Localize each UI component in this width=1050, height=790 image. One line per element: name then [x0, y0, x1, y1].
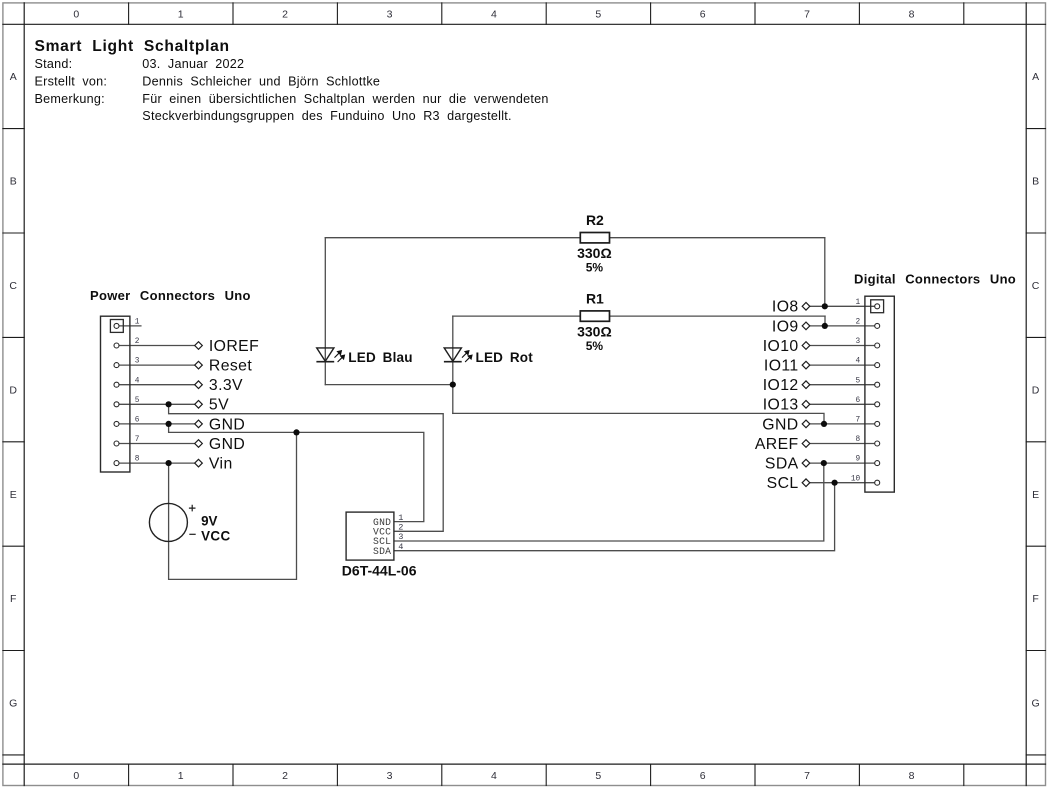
wire R2 top horizontal (net LED Blau anode to IO8): [325, 237, 825, 239]
svg-text:330Ω: 330Ω: [577, 324, 612, 340]
svg-text:4: 4: [491, 8, 497, 20]
svg-text:Reset: Reset: [209, 358, 252, 375]
svg-text:8: 8: [135, 456, 140, 464]
svg-text:5: 5: [595, 8, 601, 20]
svg-text:3: 3: [387, 770, 393, 782]
wire D6T SCL to SDA pin line: [394, 463, 824, 541]
node Vin (power pin 8): [195, 456, 233, 473]
svg-text:0: 0: [73, 8, 79, 20]
svg-text:10: 10: [851, 475, 861, 483]
svg-text:LED Blau: LED Blau: [348, 350, 412, 365]
wire LED Blau vertical from R2: [324, 238, 326, 385]
wire 5V to D6T VCC: [169, 404, 444, 531]
connector J2 Digital Connectors Uno: [854, 271, 1016, 492]
svg-text:IO10: IO10: [763, 338, 799, 355]
svg-text:5: 5: [856, 377, 861, 385]
svg-text:8: 8: [909, 8, 915, 20]
svg-text:8: 8: [856, 436, 861, 444]
svg-text:R2: R2: [586, 212, 604, 228]
pin numbers U1 1-4: [398, 513, 403, 552]
node IO8 (digital pin 1): [772, 299, 810, 316]
svg-text:2: 2: [398, 523, 403, 533]
svg-text:4: 4: [856, 358, 861, 366]
svg-text:Für einen übersichtlichen Scha: Für einen übersichtlichen Schaltplan wer…: [142, 92, 548, 106]
svg-text:F: F: [10, 593, 17, 605]
svg-text:2: 2: [856, 319, 861, 327]
node IO11 (digital pin 4): [764, 358, 810, 375]
node 5V (power pin 5): [195, 397, 229, 414]
svg-text:1: 1: [178, 770, 184, 782]
svg-text:5V: 5V: [209, 397, 229, 414]
svg-text:330Ω: 330Ω: [577, 245, 612, 261]
svg-text:Steckverbindungsgruppen des Fu: Steckverbindungsgruppen des Funduino Uno…: [142, 109, 511, 123]
svg-text:4: 4: [398, 542, 403, 552]
svg-text:SCL: SCL: [767, 475, 799, 492]
svg-text:7: 7: [804, 8, 810, 20]
wire R2 right side down to IO8 pin line: [824, 238, 826, 307]
junction Vin tap: [166, 460, 172, 466]
wire GND to D6T GND: [169, 424, 424, 522]
connector J1 Power Connectors Uno: [90, 288, 251, 472]
svg-text:3: 3: [135, 358, 140, 366]
svg-text:D: D: [1032, 384, 1040, 396]
node GND (digital pin 7): [762, 416, 810, 433]
svg-text:IO13: IO13: [763, 397, 799, 414]
pin numbers J2 1-10: [851, 299, 861, 483]
svg-text:Vin: Vin: [209, 456, 233, 473]
svg-text:IOREF: IOREF: [209, 338, 259, 355]
svg-text:Bemerkung:: Bemerkung:: [35, 92, 105, 106]
junction SCL: [832, 480, 838, 486]
svg-text:E: E: [10, 489, 17, 501]
svg-text:1: 1: [178, 8, 184, 20]
svg-text:B: B: [10, 176, 17, 188]
svg-text:Dennis Schleicher und Björn Sc: Dennis Schleicher und Björn Schlottke: [142, 75, 380, 89]
junction 9V return on GND net: [293, 429, 299, 435]
svg-text:IO9: IO9: [772, 318, 799, 335]
svg-text:E: E: [1032, 489, 1039, 501]
svg-text:C: C: [9, 280, 17, 292]
svg-text:7: 7: [804, 770, 810, 782]
svg-text:B: B: [1032, 176, 1039, 188]
svg-text:9: 9: [856, 456, 861, 464]
svg-text:A: A: [10, 71, 17, 83]
svg-text:8: 8: [909, 770, 915, 782]
junction 5V tap: [166, 401, 172, 407]
wire power connector pin stubs: [117, 326, 195, 463]
svg-text:Smart Light Schaltplan: Smart Light Schaltplan: [35, 38, 230, 55]
svg-text:C: C: [1032, 280, 1040, 292]
svg-text:R1: R1: [586, 290, 604, 306]
svg-text:SDA: SDA: [373, 546, 391, 557]
svg-text:7: 7: [856, 417, 861, 425]
LED D2: [444, 348, 533, 365]
svg-text:2: 2: [282, 770, 288, 782]
svg-text:2: 2: [282, 8, 288, 20]
svg-text:D: D: [9, 384, 17, 396]
svg-text:03. Januar 2022: 03. Januar 2022: [142, 57, 244, 71]
node IO9 (digital pin 2): [772, 318, 810, 335]
svg-text:GND: GND: [762, 416, 798, 433]
pin numbers J1 1-8: [135, 319, 140, 464]
junction LED cathodes: [450, 382, 456, 388]
junction SDA: [821, 460, 827, 466]
svg-text:Digital Connectors Uno: Digital Connectors Uno: [854, 271, 1016, 286]
svg-text:Stand:: Stand:: [35, 57, 73, 71]
svg-text:9V: 9V: [201, 514, 217, 529]
svg-text:6: 6: [700, 770, 706, 782]
svg-text:A: A: [1032, 71, 1039, 83]
junction GND digital: [821, 421, 827, 427]
node IOREF (power pin 2): [195, 338, 259, 355]
svg-text:0: 0: [73, 770, 79, 782]
node 3.3V (power pin 4): [195, 377, 243, 394]
svg-text:IO12: IO12: [763, 377, 799, 394]
node GND (power pin 6): [195, 416, 246, 433]
wire Vin through 9V source to GND net: [169, 432, 297, 579]
node SDA (digital pin 9): [765, 456, 810, 473]
svg-text:1: 1: [856, 299, 861, 307]
wire R1 right side down to IO9 pin line: [824, 316, 826, 326]
junction GND tap: [166, 421, 172, 427]
svg-text:4: 4: [491, 770, 497, 782]
svg-text:6: 6: [135, 417, 140, 425]
svg-text:3: 3: [856, 338, 861, 346]
svg-text:D6T-44L-06: D6T-44L-06: [342, 562, 417, 578]
svg-text:6: 6: [700, 8, 706, 20]
sensor U1 D6T-44L-06: [346, 512, 394, 560]
svg-text:G: G: [1032, 698, 1040, 710]
svg-text:G: G: [9, 698, 17, 710]
wire LED Rot vertical: [452, 316, 454, 413]
svg-text:5%: 5%: [586, 261, 604, 275]
svg-text:GND: GND: [209, 436, 245, 453]
LED D1: [316, 348, 412, 365]
node GND (power pin 7): [195, 436, 246, 453]
junction IO8: [822, 303, 828, 309]
svg-text:AREF: AREF: [755, 436, 799, 453]
node IO13 (digital pin 6): [763, 397, 810, 414]
svg-text:GND: GND: [209, 416, 245, 433]
svg-text:VCC: VCC: [201, 528, 230, 543]
svg-text:1: 1: [398, 513, 403, 523]
svg-text:Power Connectors Uno: Power Connectors Uno: [90, 288, 251, 303]
svg-text:LED Rot: LED Rot: [476, 350, 534, 365]
svg-text:SDA: SDA: [765, 456, 799, 473]
node IO12 (digital pin 5): [763, 377, 810, 394]
svg-text:5: 5: [135, 397, 140, 405]
svg-text:1: 1: [135, 319, 140, 327]
svg-text:IO8: IO8: [772, 299, 799, 316]
node Reset (power pin 3): [195, 358, 253, 375]
svg-text:7: 7: [135, 436, 140, 444]
wire LED Blau cathode bottom to junction: [325, 384, 453, 386]
svg-text:IO11: IO11: [764, 358, 799, 375]
svg-text:3: 3: [387, 8, 393, 20]
svg-text:5%: 5%: [586, 339, 604, 353]
wire digital connector pin stubs: [810, 306, 877, 482]
resistor R2: [580, 233, 609, 243]
svg-text:6: 6: [856, 397, 861, 405]
svg-text:3.3V: 3.3V: [209, 377, 243, 394]
node SCL (digital pin 10): [767, 475, 810, 492]
svg-text:5: 5: [595, 770, 601, 782]
voltage source 9V VCC: [149, 503, 230, 543]
svg-text:F: F: [1032, 593, 1039, 605]
wire LED Rot cathode to GND pin line: [453, 413, 824, 424]
svg-text:2: 2: [135, 338, 140, 346]
wire R1 horizontal (net LED Rot anode to IO9): [453, 315, 825, 317]
title block: sheet header text: [35, 38, 549, 123]
svg-text:3: 3: [398, 532, 403, 542]
svg-text:4: 4: [135, 377, 140, 385]
node AREF (digital pin 8): [755, 436, 810, 453]
resistor R1: [580, 311, 609, 321]
junction IO9: [822, 323, 828, 329]
wire D6T SDA to SCL pin line: [394, 483, 835, 551]
svg-text:Erstellt von:: Erstellt von:: [35, 75, 108, 89]
node IO10 (digital pin 3): [763, 338, 810, 355]
